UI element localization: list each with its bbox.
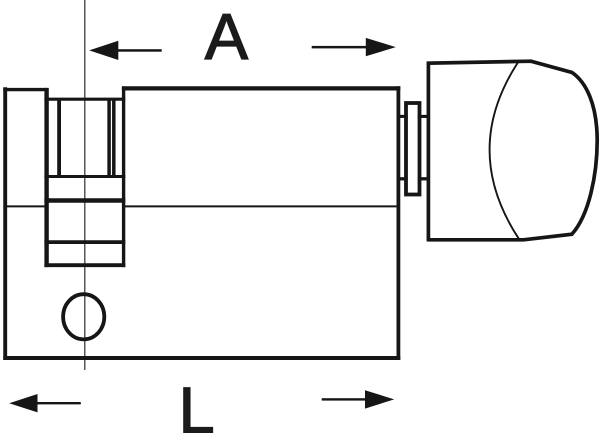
thumbturn knob face arc (thin) xyxy=(490,63,520,240)
cylinder body bottom edge xyxy=(3,356,400,360)
cylinder face plate (left rectangle) xyxy=(3,87,7,360)
washer top connector left xyxy=(397,115,408,118)
fixing screw hole (circle) xyxy=(63,294,104,339)
pin housing horizontal line 2 (thick shear) xyxy=(44,198,125,202)
thumbturn hub tall rectangle xyxy=(406,103,420,195)
svg-text:L: L xyxy=(179,373,215,433)
washer bottom connector right xyxy=(418,177,429,180)
cylinder body right edge xyxy=(396,86,400,360)
dimension arrow L-left (points left) xyxy=(9,394,81,412)
thumbturn knob outline xyxy=(428,61,597,241)
pin housing inner-right vertical 1 xyxy=(107,99,111,176)
washer bottom connector left xyxy=(397,177,408,180)
shear line through body (thin) xyxy=(125,205,397,207)
dimension arrow A-right (points right) xyxy=(312,38,396,56)
pin housing top edge xyxy=(44,98,125,101)
dimension arrow L-right (points right) xyxy=(322,390,395,408)
pin housing horizontal line 3 xyxy=(44,240,125,244)
shear line through face plate (thin) xyxy=(5,205,46,207)
pin housing inner-left vertical xyxy=(57,99,61,176)
dimension arrow A-left (points left) xyxy=(89,41,162,60)
pin housing outer right vertical xyxy=(122,86,125,267)
dimension reference line (thin vertical at x=84.8) xyxy=(84,0,86,370)
pin housing horizontal line 1 xyxy=(44,175,125,178)
pin housing bottom edge xyxy=(44,263,125,267)
pin housing inner-right vertical 2 xyxy=(112,99,116,176)
svg-text:A: A xyxy=(205,0,249,73)
washer top connector right xyxy=(418,115,429,118)
cylinder body top edge xyxy=(122,86,400,90)
pin housing outer left vertical xyxy=(44,88,48,267)
